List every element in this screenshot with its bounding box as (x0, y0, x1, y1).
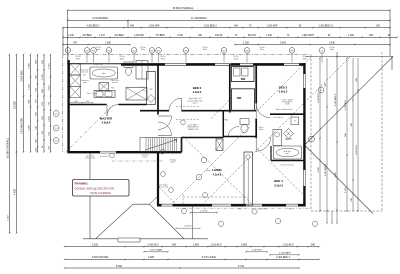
svg-text:1.305 BATH: 1.305 BATH (279, 252, 291, 255)
exterior wall: top (brick) (121, 63, 306, 66)
svg-text:3.345: 3.345 (335, 171, 337, 177)
handrail wall along void (182, 137, 224, 139)
svg-text:high end: high end (81, 72, 88, 74)
valley dash G corner (159, 187, 177, 206)
svg-text:1.000: 1.000 (348, 35, 354, 37)
top dimension row 3 (62, 25, 391, 28)
DP dim near roof base (175, 225, 200, 229)
eave dash-dot line left of wall (62, 55, 64, 152)
svg-text:14.280: 14.280 (13, 101, 16, 109)
svg-text:WIR: WIR (241, 79, 246, 81)
svg-text:5.470 LIVING: 5.470 LIVING (202, 256, 217, 259)
svg-text:below: below (143, 157, 148, 159)
svg-text:940: 940 (172, 243, 177, 246)
bottom dim row 2 (64, 256, 320, 260)
svg-text:1.890: 1.890 (105, 42, 111, 44)
top dimension row 1: 15 840 OVERALL (67, 6, 391, 11)
svg-text:FRAMING:: FRAMING: (75, 181, 89, 185)
exterior wall: master bottom (67, 151, 181, 153)
top dimension row 5 (partial) (62, 42, 391, 45)
bottom sub dims (143, 249, 300, 256)
bath labels and notes (259, 99, 294, 166)
right tag circles (309, 87, 324, 142)
wall: bed3 left (255, 64, 257, 138)
svg-text:/grate: /grate (193, 102, 198, 105)
roof chimney box on base line (118, 238, 140, 242)
ensuite door arc (107, 105, 119, 117)
svg-text:2.110: 2.110 (48, 85, 50, 91)
dash-dot line below living wall (183, 194, 248, 206)
WC toilet (240, 119, 249, 133)
svg-text:2.205: 2.205 (92, 243, 99, 246)
svg-text:Feature Clg: Feature Clg (94, 63, 103, 66)
svg-text:TIMBER CAP: TIMBER CAP (188, 128, 200, 131)
svg-text:900: 900 (238, 208, 241, 210)
hip roof trapezoid right slope (150, 204, 185, 239)
svg-text:divertor: divertor (112, 81, 118, 84)
svg-text:White: White (234, 57, 239, 60)
svg-text:1.457: 1.457 (99, 35, 105, 37)
spa bath (90, 67, 118, 79)
svg-text:1.981 BATH: 1.981 BATH (302, 34, 315, 37)
top dimension row 2: 3 190 BOARD / 12 190 BRICK (67, 17, 391, 21)
top dim connector verticals (63, 10, 390, 63)
svg-text:1.300 BED 3 L: 1.300 BED 3 L (319, 25, 335, 27)
svg-text:White: White (330, 48, 335, 51)
svg-text:2.895 ENS: 2.895 ENS (21, 70, 23, 82)
wall: wir/bed2 divider (229, 64, 231, 113)
valley dash D4 long (204, 57, 351, 204)
top wall window gaps (165, 63, 299, 65)
bottom wall window tags and dims (181, 208, 317, 226)
svg-text:BED 4: BED 4 (274, 179, 283, 183)
window tag circles along top wall (65, 48, 325, 63)
downpipe vertical line (191, 207, 193, 239)
svg-text:1.100: 1.100 (42, 73, 44, 79)
svg-text:1.610 STAIR: 1.610 STAIR (150, 249, 163, 252)
svg-text:MASTER: MASTER (100, 117, 113, 121)
svg-text:1.915 BED 4: 1.915 BED 4 (325, 163, 327, 176)
svg-text:1.100: 1.100 (48, 116, 50, 122)
wc door arc (228, 127, 239, 138)
valley tag circles lower left (160, 149, 173, 192)
left dimension column 6 (42, 54, 45, 153)
dp to leaf note (84, 153, 114, 160)
dash-dot eave below bottom wall (176, 207, 311, 209)
svg-text:4.0x3.6: 4.0x3.6 (102, 121, 111, 125)
svg-text:1.310 W.O: 1.310 W.O (282, 243, 293, 246)
A/C note (187, 97, 202, 104)
svg-text:1.515: 1.515 (48, 62, 50, 68)
svg-text:White: White (203, 48, 208, 51)
bed2 door arc (169, 98, 182, 111)
svg-text:240 WL: 240 WL (215, 35, 224, 37)
room label MASTER (100, 117, 113, 125)
svg-text:6.710: 6.710 (238, 265, 245, 268)
bath shower diamond (284, 129, 294, 139)
WIR cupboard 2 (232, 89, 255, 111)
svg-text:White: White (120, 57, 125, 60)
wall: wc bottom (223, 136, 256, 138)
handrail note (187, 124, 199, 131)
svg-text:White: White (260, 48, 265, 51)
svg-text:2.430: 2.430 (329, 42, 335, 44)
svg-text:below: below (171, 162, 176, 164)
wall: stair right (181, 138, 183, 153)
svg-text:surface below: surface below (84, 158, 96, 160)
room label BED 3 (279, 86, 288, 94)
svg-text:White: White (161, 57, 166, 60)
svg-text:1.200: 1.200 (243, 42, 249, 44)
svg-text:White: White (303, 57, 308, 60)
svg-text:1.100: 1.100 (345, 186, 347, 192)
svg-text:1.240 DP: 1.240 DP (200, 211, 209, 213)
hip roof ridge (133, 196, 158, 204)
svg-text:1.500: 1.500 (139, 87, 143, 89)
roof line below note (141, 155, 148, 159)
valley dash D1 near WC (210, 98, 232, 120)
master hip dash-dot diagonal (66, 105, 114, 153)
right roof eave top edge (306, 56, 393, 58)
svg-text:White: White (76, 57, 81, 60)
wall: living left (157, 152, 159, 206)
svg-text:1.100: 1.100 (266, 35, 272, 37)
svg-text:4.3x4.8: 4.3x4.8 (213, 173, 222, 177)
master bottom wall window gap (100, 151, 116, 153)
HWC cupboard in living corner (216, 139, 223, 151)
deck top edge (67, 63, 121, 65)
svg-text:3 190 BOARD: 3 190 BOARD (92, 17, 108, 20)
robe cupboard (147, 71, 156, 104)
bottom dim row 1 (64, 243, 320, 247)
svg-text:4.490: 4.490 (13, 188, 16, 195)
ensuite shower (99, 83, 109, 91)
wall: bath bottom / bed4 top (271, 146, 304, 161)
left dimension column 7 (48, 54, 51, 153)
left dimension column 3 (20, 54, 24, 153)
svg-text:White: White (141, 48, 146, 51)
tiny annotation texts above top wall (75, 47, 334, 61)
svg-text:770 BED: 770 BED (155, 35, 165, 37)
svg-text:8.350: 8.350 (116, 265, 123, 268)
bath vanity (273, 130, 282, 146)
svg-text:3.070 MASTER: 3.070 MASTER (20, 118, 23, 134)
svg-text:3.000: 3.000 (28, 124, 30, 130)
ensuite wc pan (124, 62, 133, 75)
wall: ensuite/master divider (69, 104, 147, 106)
svg-text:450H: 450H (285, 104, 290, 106)
master double door arcs (158, 116, 172, 136)
svg-text:2.400 BED 4: 2.400 BED 4 (276, 256, 290, 259)
svg-text:410 BED: 410 BED (82, 35, 92, 37)
svg-text:Niche + shelf: Niche + shelf (87, 93, 97, 95)
room label BED 2 (193, 86, 202, 94)
top dimension row 4 (62, 34, 398, 38)
bed4 door arc (256, 137, 271, 152)
svg-text:AXON CLADDING: AXON CLADDING (90, 191, 111, 195)
bath tub (274, 146, 302, 159)
svg-text:1.310: 1.310 (7, 214, 9, 220)
WIR cupboard 1 (232, 67, 255, 82)
svg-text:2.100: 2.100 (177, 35, 183, 37)
exterior wall: left (67, 60, 69, 153)
left dimension column 2 (13, 54, 17, 234)
bottom wall window gaps (162, 204, 299, 206)
svg-text:1.010 W.O: 1.010 W.O (318, 93, 320, 104)
bed3 door arc (256, 104, 270, 118)
left dimension column 4 (28, 54, 31, 153)
wall: wc left (222, 111, 224, 138)
svg-text:3.2x3.3: 3.2x3.3 (274, 184, 283, 188)
valley dash F down-left across LIVING (171, 127, 250, 206)
svg-text:410 BED: 410 BED (114, 35, 124, 37)
ensuite interior dim (68, 101, 94, 103)
left door tag circles (53, 111, 59, 144)
svg-text:2.865: 2.865 (241, 243, 248, 246)
svg-text:4.250 BED 2: 4.250 BED 2 (86, 25, 100, 27)
smoke detector circle in living (203, 193, 208, 198)
eave dash-dot line above top wall (63, 54, 312, 56)
svg-text:4.223 BED 3: 4.223 BED 3 (335, 93, 337, 106)
svg-text:White: White (96, 48, 101, 51)
right bottom short verticals (326, 210, 338, 224)
svg-text:1.100 W.O: 1.100 W.O (252, 250, 263, 252)
bottom dim row 3 (64, 265, 300, 269)
svg-text:5.405: 5.405 (280, 42, 286, 44)
svg-text:1.200: 1.200 (74, 101, 78, 103)
bulkhead dashes in hall (176, 106, 200, 119)
right dashed eave outline (311, 52, 382, 212)
svg-text:940 WC: 940 WC (248, 35, 257, 37)
svg-text:BED 3: BED 3 (279, 86, 288, 90)
svg-text:1.240 DP: 1.240 DP (184, 225, 193, 227)
lower roof base eave line (83, 238, 208, 240)
valley dash D2 over BED3 (257, 57, 311, 111)
svg-text:2.230: 2.230 (318, 166, 320, 172)
hip roof trapezoid left slope (96, 204, 134, 239)
wall: bed2 left (157, 64, 159, 115)
svg-text:To install fan: To install fan (273, 116, 283, 119)
svg-text:BED 2: BED 2 (193, 86, 202, 90)
ensuite linen cupboard (136, 61, 148, 80)
tag circle near bed2 door (181, 120, 186, 125)
svg-text:2.410 W.O: 2.410 W.O (147, 243, 158, 246)
svg-text:glass: glass (83, 82, 87, 84)
room label LIVING (212, 168, 222, 177)
right dim verticals (319, 57, 392, 212)
svg-text:Robe: Robe (259, 129, 263, 131)
staircase (140, 137, 182, 151)
svg-text:1.400 W.O: 1.400 W.O (259, 208, 268, 210)
right roof hip diagonal B (305, 145, 374, 214)
left dimension column 1: 10.380 OVERALL (5, 54, 10, 234)
svg-text:1.400 WIL: 1.400 WIL (134, 35, 145, 37)
room label BED 4 (274, 179, 283, 188)
svg-text:1.800: 1.800 (193, 243, 200, 246)
right wall window gaps (303, 74, 305, 186)
wall: bed2 bottom / hall top (140, 110, 256, 112)
svg-text:6A at 45 Deg: 6A at 45 Deg (158, 186, 168, 189)
svg-text:3.0x3.3: 3.0x3.3 (279, 90, 288, 94)
ensuite X-box column (70, 64, 81, 98)
svg-text:3.600 MASTER: 3.600 MASTER (92, 256, 109, 259)
ensuite corner unit (126, 88, 147, 101)
svg-text:240: 240 (288, 208, 291, 210)
wall: bed3 bottom / bath top (270, 113, 304, 115)
svg-text:Square Shower base: Square Shower base (276, 109, 293, 111)
svg-text:WIR: WIR (237, 98, 242, 100)
svg-text:WC: WC (225, 120, 229, 122)
svg-text:15 840 OVERALL: 15 840 OVERALL (172, 6, 194, 10)
right long solid dim line (336, 52, 338, 211)
valley dash D5 over BED4 (257, 149, 303, 195)
svg-text:4.223 BED 3: 4.223 BED 3 (203, 25, 217, 27)
svg-text:940: 940 (311, 243, 316, 246)
svg-text:1.490: 1.490 (28, 62, 30, 68)
svg-text:1.100 W.O: 1.100 W.O (345, 100, 347, 111)
svg-text:tiled: tiled (83, 74, 86, 77)
svg-text:DOUBLE JS/DS @1200 CRS FOR: DOUBLE JS/DS @1200 CRS FOR (75, 186, 115, 190)
exterior wall: right (303, 63, 305, 207)
robe leader text (139, 87, 146, 92)
lower roof left eave vertical (89, 153, 91, 239)
svg-text:1.100: 1.100 (68, 35, 74, 37)
right rotated dim texts (318, 77, 358, 201)
svg-text:1.810 W.O: 1.810 W.O (210, 243, 221, 246)
svg-text:1.000 WIR: 1.000 WIR (149, 25, 160, 27)
FRAMING note box (73, 180, 130, 197)
left dimension column 5 (35, 54, 38, 153)
bed4 closet (244, 152, 253, 206)
right roof hip diagonal A (305, 57, 394, 146)
svg-text:740: 740 (86, 101, 89, 103)
exterior wall: bottom (157, 204, 306, 207)
svg-text:seat: seat (285, 152, 289, 155)
svg-text:1.310: 1.310 (28, 83, 30, 89)
svg-text:2.028: 2.028 (148, 256, 155, 259)
roof valley notes + circles (158, 157, 211, 189)
svg-text:BATH: BATH (286, 138, 292, 141)
ensuite vanity (94, 91, 115, 98)
svg-text:4.0x3.3: 4.0x3.3 (193, 90, 202, 94)
svg-text:1.240 WIR: 1.240 WIR (267, 25, 278, 27)
WC label (225, 120, 229, 122)
bath mixer box (291, 117, 299, 125)
svg-text:1.810 W.O: 1.810 W.O (356, 145, 358, 156)
svg-text:Valley: Valley (206, 170, 211, 172)
ensuite annotation texts (80, 63, 119, 95)
svg-text:12 190 BRICK: 12 190 BRICK (191, 17, 207, 20)
svg-text:10.380 OVERALL: 10.380 OVERALL (5, 137, 9, 158)
valley dash E down-right across LIVING (183, 137, 254, 206)
svg-text:Feature tile wall: Feature tile wall (281, 163, 294, 166)
ridge dash-dot left of stairs (112, 160, 163, 162)
svg-text:LIVING: LIVING (212, 168, 222, 172)
